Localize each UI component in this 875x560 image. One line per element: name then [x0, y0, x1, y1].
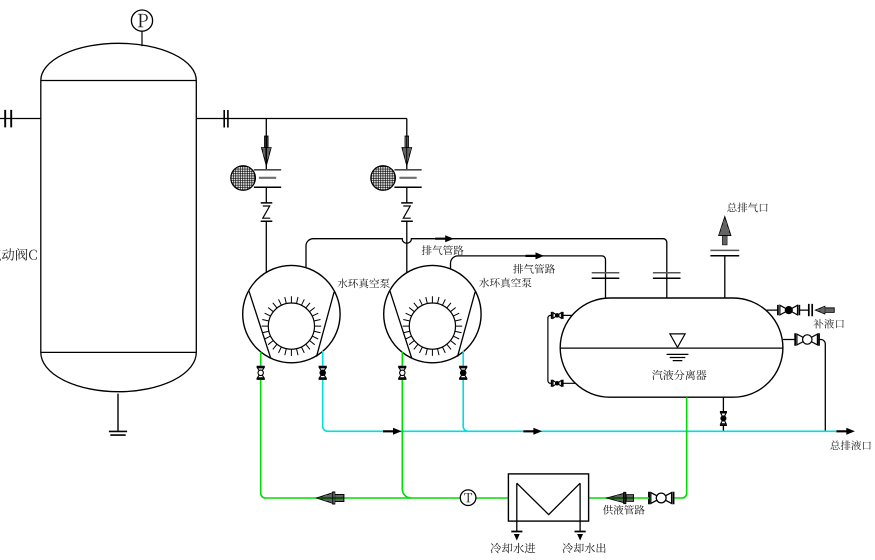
level gauge bypass pipe [548, 315, 575, 383]
supply shutoff valve [649, 492, 674, 505]
shutoff plate stack at x=266.3 [254, 169, 281, 171]
exhaust header 1 (pump1 to separator nozzle 2), with crossover hop [306, 239, 667, 298]
suction header flange pair [224, 110, 228, 128]
pump suction pipe x=406.8 [406, 221, 408, 272]
label gas-liquid separator [652, 370, 706, 380]
label supply line [603, 505, 645, 515]
separator nozzle 1 flange [592, 272, 620, 274]
separator right drain pipe [783, 340, 825, 432]
label P in gauge [138, 14, 148, 27]
heat exchanger coil V [517, 483, 580, 531]
cooling water out arrow [577, 534, 583, 541]
separator bottom drain pipe [722, 397, 724, 431]
label main vent port [727, 203, 768, 213]
main drain outlet arrow [836, 428, 855, 435]
pump port mini valve at x=463.2 [459, 367, 467, 379]
tank bottom support stem [117, 394, 119, 431]
motor ball at x=383.1 [371, 166, 396, 191]
makeup port hatched inlet arrow [815, 306, 834, 314]
gas-liquid separator vessel [560, 298, 783, 397]
exhaust header 2 (pump2 to separator nozzle 1) [451, 256, 606, 298]
pump impeller ring [268, 303, 314, 349]
green supply pipe from separator bottom [674, 397, 686, 498]
tank left nozzle pipe [0, 118, 41, 120]
level gauge mini valve at y=315.4 [552, 312, 563, 319]
main vent pipe [724, 256, 726, 298]
pump port mini valve at x=402.3 [398, 367, 406, 379]
separator nozzle 2 flange [653, 272, 681, 274]
impeller vanes [403, 296, 463, 356]
makeup port ball valve [778, 305, 799, 315]
left nozzle flange pair [5, 110, 11, 128]
flow arrow on drain header 2 [523, 428, 542, 435]
pressure gauge stem [141, 31, 143, 46]
cyan drain branch from pump2 [463, 351, 468, 432]
cooling water in arrow [514, 534, 520, 541]
water-ring vacuum pump casing at x=291.4 [243, 265, 340, 362]
flow arrow on exhaust header 1 [435, 235, 454, 242]
pump port mini valve at x=260.7 [257, 367, 265, 379]
pump port mini valve at x=322.7 [319, 367, 327, 379]
label exhaust line 2 [513, 264, 555, 274]
cyan drain pipe from pump1 [323, 351, 836, 431]
level indicator triangle [670, 334, 685, 348]
pump port funnel lines [249, 291, 334, 359]
cooling water stub flanges [511, 531, 585, 533]
flow arrow on exhaust header 2 [526, 252, 545, 259]
bottom drain mini valve [720, 412, 727, 425]
label water-ring pump 2 [479, 278, 531, 288]
flow arrow on drain header 1 [383, 428, 402, 435]
suction header pipe [196, 119, 406, 170]
hatched supply arrow (points left) [606, 492, 633, 503]
vacuum tank vessel [41, 43, 197, 391]
temperature gauge circle [460, 490, 476, 506]
level gauge mini valve at y=383.3 [552, 380, 563, 387]
pump suction pipe x=266.3 [265, 221, 267, 272]
green pipe pump2 drop [402, 352, 411, 498]
label exhaust line 1 [422, 245, 464, 255]
separator right drain valve [795, 333, 819, 346]
pipe segment below plates x=406.8 [406, 187, 408, 203]
pump impeller ring [409, 303, 455, 349]
pipe segment below plates x=266.3 [265, 187, 267, 203]
label pneumatic valve C [0, 248, 37, 260]
ground symbol [109, 431, 127, 435]
makeup port pipe [767, 309, 809, 311]
hatched down-flow arrow at x=406.8 [402, 136, 412, 166]
green pipe pump1 drop [261, 352, 509, 498]
label water-ring pump 1 [338, 278, 390, 288]
heat exchanger shell [508, 474, 588, 521]
hatched return arrow on green header (points left) [316, 492, 344, 504]
motor ball at x=243.1 [231, 166, 256, 191]
flexible joint Z at x=266.3 [261, 203, 273, 221]
label cooling water in [491, 543, 536, 554]
label T in gauge [464, 493, 472, 502]
separator liquid level line [560, 347, 783, 349]
pump port funnel lines [390, 291, 475, 359]
main vent hatched up arrow [719, 216, 731, 244]
level indicator water marks [667, 354, 689, 360]
hatched down-flow arrow at x=266.3 [261, 136, 271, 166]
flexible joint Z at x=406.8 [401, 203, 413, 221]
shutoff plate stack at x=406.8 [394, 169, 421, 171]
makeup port union flange [809, 304, 812, 316]
main vent flange [710, 249, 739, 251]
impeller vanes [262, 296, 322, 356]
pressure gauge P1 circle [131, 10, 152, 31]
green pipe valve to heat exchanger [589, 497, 649, 499]
water-ring vacuum pump casing at x=432.4 [384, 265, 481, 362]
label cooling water out [563, 543, 606, 553]
label main drain port [830, 440, 871, 450]
label makeup port [814, 319, 844, 329]
